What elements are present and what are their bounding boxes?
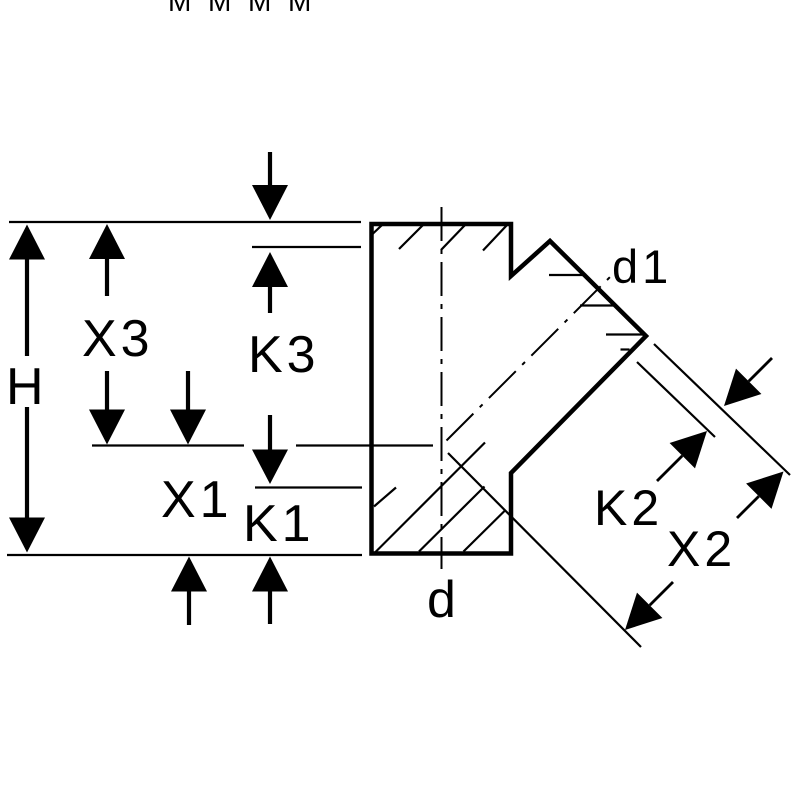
ref line bottom socket depth K1: [255, 486, 362, 488]
arrow K2 inner up-right: [670, 431, 707, 468]
hatch bottom band line 1: [374, 488, 396, 507]
branch socket hatch mark 1: [549, 274, 587, 276]
ref line top socket depth K3: [252, 246, 361, 248]
arrow X2 lower down-left: [625, 593, 662, 630]
fitting body outline: [372, 224, 647, 554]
branch socket hatch mark 2: [580, 304, 615, 306]
svg-text:M: M: [288, 0, 311, 17]
ref line axis level right part: [296, 444, 433, 446]
svg-text:K2: K2: [594, 480, 663, 536]
arrow K1 top: [252, 450, 288, 485]
extension line branch socket depth K2: [637, 362, 715, 437]
hatch top band line 4: [483, 225, 508, 251]
arrow H bottom: [9, 518, 45, 553]
svg-text:d1: d1: [612, 240, 672, 293]
arrow X1 bottom: [171, 557, 207, 592]
branch socket hatch mark 3: [606, 333, 644, 335]
hatch top band line 1: [372, 225, 383, 235]
arrow down onto top face line: [252, 185, 288, 220]
arrow K2 outer down-left: [724, 369, 761, 406]
arrow X2 upper up-right: [746, 472, 783, 509]
arrow X3 top: [89, 224, 125, 259]
branch axis centerline 45deg: [447, 274, 614, 441]
hatch top band line 3: [441, 225, 466, 251]
ref line axis level left part: [92, 444, 244, 446]
hatch bottom band line 2: [375, 443, 485, 553]
svg-text:M: M: [248, 0, 271, 17]
extension line from axis crossing X2: [448, 453, 641, 647]
svg-text:M: M: [208, 0, 231, 17]
arrow X1 top: [170, 410, 206, 445]
svg-text:X1: X1: [161, 471, 233, 529]
svg-text:X3: X3: [82, 310, 154, 368]
hatch top band line 2: [399, 225, 424, 250]
svg-text:K3: K3: [248, 326, 320, 384]
arrow H top: [9, 225, 45, 260]
arrow up onto K3 depth line: [252, 252, 288, 287]
branch socket hatch mark 4: [621, 348, 630, 350]
svg-text:M: M: [168, 0, 191, 17]
arrow X3 bottom: [89, 410, 125, 445]
arrow K1 bottom: [252, 557, 288, 592]
svg-text:K1: K1: [243, 495, 315, 553]
svg-text:d: d: [427, 571, 460, 629]
hatch bottom band line 3: [419, 487, 485, 552]
vertical centerline of body: [441, 207, 443, 569]
extension line branch end face X2: [654, 344, 790, 475]
faint cropped text marks at top: [168, 0, 311, 17]
ref line top face level: [9, 221, 361, 223]
hatch bottom band line 4: [464, 511, 506, 552]
svg-text:H: H: [6, 358, 48, 416]
ref line bottom face level: [7, 554, 362, 556]
svg-text:X2: X2: [667, 521, 736, 577]
